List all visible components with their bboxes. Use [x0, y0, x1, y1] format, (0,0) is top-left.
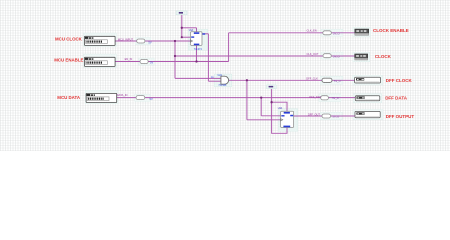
wire MCU ENABLE row y=61.5: [115, 61, 229, 63]
wire to FF2 CLK y=119.8: [247, 119, 281, 121]
right row 5: DFF OUTPUT: [308, 111, 414, 119]
wire CLOCK branch vertical x=175: [174, 41, 176, 78]
svg-text:DFF CLOCK: DFF CLOCK: [386, 78, 413, 83]
wire VCC1 to FF1 D: [182, 36, 191, 38]
gate U2 AND: [211, 74, 229, 87]
right row 4: DFF DATA: [309, 95, 407, 101]
wire FF2 Q to DFF OUTPUT row y=116: [294, 115, 355, 117]
probe DFF CLOCK: [355, 77, 381, 83]
svg-text:74LS74: 74LS74: [194, 49, 203, 51]
svg-text:DFF DATA: DFF DATA: [385, 95, 408, 100]
svg-text:U2A: U2A: [218, 74, 223, 77]
svg-text:MCU CLOCK: MCU CLOCK: [55, 37, 83, 42]
node VCC1/D junction: [181, 36, 183, 38]
wire MCU CLOCK row y=41: [115, 40, 191, 42]
resistor R1 (inline pill, clock row): [137, 39, 152, 45]
svg-text:5V: 5V: [150, 97, 153, 101]
probe CLOCK ENABLE: [355, 29, 369, 33]
node CLOCK/CLK junction: [174, 40, 176, 42]
svg-text:5V_O: 5V_O: [332, 96, 339, 100]
svg-text:U1A: U1A: [189, 29, 194, 32]
probe DFF OUTPUT: [355, 111, 380, 117]
wire CLOCK row y=56 to probe: [175, 55, 355, 57]
node CLOCK branch junction: [174, 55, 176, 57]
svg-text:CLOCK ENABLE: CLOCK ENABLE: [373, 28, 409, 33]
flip-flop U3 7474: [278, 107, 294, 128]
node VCC2 junction: [270, 101, 272, 103]
svg-text:5V_O: 5V_O: [333, 31, 340, 35]
wire VCC2 stem: [271, 89, 273, 103]
svg-text:MCU_INPUT: MCU_INPUT: [118, 37, 134, 41]
svg-text:5V_O: 5V_O: [333, 115, 340, 119]
wire vertical to CLOCK ENABLE row: [228, 33, 230, 62]
wire VCC1 to FF1 PRE: [182, 27, 197, 29]
svg-text:5V_O: 5V_O: [333, 54, 340, 58]
svg-text:DFF_DAT: DFF_DAT: [309, 95, 321, 99]
wire VCC2 to FF2 CLR loop: [272, 102, 287, 133]
wire VCC1 stem: [181, 14, 183, 37]
svg-text:CLK_EN: CLK_EN: [307, 28, 317, 32]
svg-text:DATA_IN: DATA_IN: [117, 93, 128, 97]
wire CLOCK ENABLE row y=32.8: [229, 32, 355, 34]
wire VCC2 to FF2 PRE: [272, 102, 287, 111]
wire AND output / DFF CLOCK row y=80.3: [229, 79, 355, 81]
svg-text:MCU DATA: MCU DATA: [57, 95, 81, 100]
junction dots: [174, 27, 273, 104]
component highlight boxes: [84, 27, 383, 131]
svg-text:EN_IN: EN_IN: [125, 57, 133, 61]
node gated clock junction: [246, 79, 248, 81]
wire gated clock vertical x=246.9: [246, 80, 248, 120]
wire MCU DATA row y=97.6: [115, 97, 355, 99]
flip-flop U1 7474: [189, 29, 206, 51]
wire CLOCK to AND input A y=78.4: [175, 77, 221, 79]
resistor R3 (inline pill, data row): [136, 96, 153, 102]
svg-text:74LS08: 74LS08: [218, 85, 227, 87]
svg-text:MCU ENABLE: MCU ENABLE: [54, 58, 83, 63]
source V1 MCU CLOCK: [85, 36, 116, 45]
node VCC1/PRE junction: [181, 27, 183, 29]
svg-text:DFF_CLK: DFF_CLK: [306, 76, 318, 80]
svg-text:5V: 5V: [148, 41, 151, 45]
svg-text:5V_O: 5V_O: [334, 79, 341, 83]
svg-text:CLK_OUT: CLK_OUT: [307, 52, 319, 56]
svg-text:CLOCK: CLOCK: [375, 54, 392, 59]
resistor R2 (inline pill, enable row): [140, 60, 153, 65]
wire FF1 PRE pin stub: [196, 28, 198, 32]
probe CLOCK: [355, 54, 368, 58]
svg-text:DFF OUTPUT: DFF OUTPUT: [386, 114, 415, 119]
wire FF1 Q output: [202, 33, 208, 35]
right row 2: CLOCK: [307, 52, 392, 60]
node ENABLE/CLR junction: [195, 60, 197, 62]
wire DATA to FF2 D: [261, 115, 280, 117]
wire DATA branch vertical x=261.2: [260, 98, 262, 116]
probe DFF DATA: [355, 96, 380, 101]
wire FF1 CLR pin to ENABLE net: [196, 45, 198, 61]
svg-text:DFF_OUT: DFF_OUT: [308, 113, 320, 117]
wire AND input B y=81.2: [208, 80, 221, 82]
power VCC2: [267, 85, 277, 89]
right row 3: DFF CLOCK: [306, 76, 412, 83]
right row 1: CLOCK ENABLE: [307, 28, 409, 35]
source V2 MCU ENABLE: [85, 57, 116, 66]
power VCC1: [176, 11, 187, 15]
svg-text:U3A: U3A: [278, 107, 283, 110]
source V3 MCU DATA: [86, 93, 117, 102]
svg-text:5V: 5V: [150, 60, 153, 64]
svg-text:1A: 1A: [211, 76, 214, 79]
node DATA/D junction: [260, 96, 262, 98]
wire Q vertical to AND input B: [207, 34, 209, 81]
